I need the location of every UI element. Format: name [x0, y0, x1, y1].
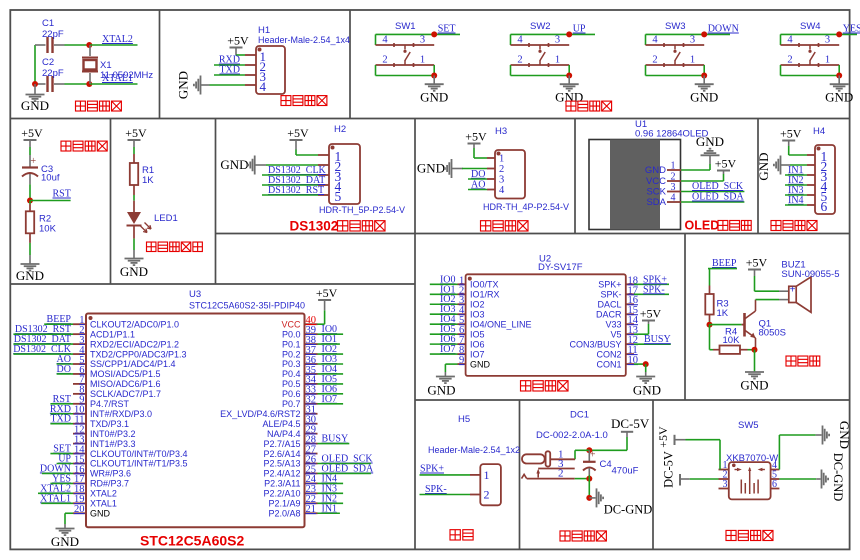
- svg-text:YES: YES: [843, 24, 860, 35]
- svg-text:VCC: VCC: [281, 319, 301, 329]
- svg-text:RD#/P3.7: RD#/P3.7: [90, 479, 129, 489]
- svg-text:TXD2/CPP0/ADC3/P1.3: TXD2/CPP0/ADC3/P1.3: [90, 349, 187, 359]
- svg-text:DC-002-2.0A-1.0: DC-002-2.0A-1.0: [536, 430, 608, 441]
- svg-text:CLKOUT1/INT#/T1/P3.5: CLKOUT1/INT#/T1/P3.5: [90, 459, 188, 469]
- svg-text:GND: GND: [220, 157, 248, 172]
- svg-text:P0.4: P0.4: [282, 369, 301, 379]
- svg-text:GND: GND: [756, 152, 771, 180]
- svg-text:C1: C1: [42, 18, 54, 29]
- svg-text:GND: GND: [120, 264, 148, 279]
- svg-text:+: +: [30, 156, 36, 167]
- svg-text:V5: V5: [610, 329, 621, 339]
- svg-text:H3: H3: [495, 126, 507, 137]
- svg-text:GND: GND: [176, 71, 191, 99]
- svg-text:22pF: 22pF: [42, 29, 64, 40]
- svg-text:4: 4: [517, 34, 523, 45]
- svg-text:Header-Male-2.54_1x2: Header-Male-2.54_1x2: [428, 445, 520, 455]
- svg-text:3: 3: [671, 182, 676, 193]
- svg-text:IO0/TX: IO0/TX: [470, 280, 499, 290]
- svg-text:4: 4: [671, 192, 676, 203]
- svg-text:10K: 10K: [723, 335, 741, 346]
- svg-text:SW5: SW5: [738, 420, 759, 431]
- svg-text:CON2: CON2: [596, 349, 621, 359]
- svg-text:GND: GND: [740, 378, 768, 393]
- svg-text:+5V: +5V: [465, 129, 487, 143]
- svg-text:5: 5: [335, 189, 342, 204]
- svg-text:4: 4: [787, 34, 793, 45]
- svg-text:GND: GND: [16, 268, 44, 283]
- svg-text:HDR-TH_5P-P2.54-V: HDR-TH_5P-P2.54-V: [319, 205, 405, 215]
- svg-text:SW1: SW1: [395, 21, 416, 32]
- svg-text:V33: V33: [605, 319, 621, 329]
- svg-text:DACR: DACR: [596, 309, 622, 319]
- svg-text:+5V: +5V: [21, 126, 43, 140]
- svg-text:IO3: IO3: [470, 309, 485, 319]
- svg-text:2: 2: [517, 54, 522, 65]
- svg-text:8050S: 8050S: [759, 328, 786, 339]
- svg-text:P0.1: P0.1: [282, 339, 301, 349]
- svg-text:DS1302: DS1302: [290, 219, 339, 234]
- svg-text:P0.6: P0.6: [282, 389, 301, 399]
- svg-text:P0.5: P0.5: [282, 379, 301, 389]
- svg-text:H4: H4: [813, 126, 825, 137]
- svg-text:TXD: TXD: [219, 65, 240, 76]
- svg-text:11.0592MHz: 11.0592MHz: [100, 70, 153, 81]
- svg-text:P2.1/A9: P2.1/A9: [268, 499, 300, 509]
- svg-text:GND: GND: [633, 383, 661, 398]
- svg-text:SW3: SW3: [665, 21, 686, 32]
- svg-text:1K: 1K: [717, 308, 729, 319]
- svg-text:1: 1: [555, 54, 560, 65]
- svg-text:GND: GND: [417, 161, 445, 176]
- svg-text:4: 4: [652, 34, 658, 45]
- svg-text:IN4: IN4: [788, 195, 804, 206]
- svg-text:3: 3: [555, 34, 560, 45]
- svg-text:+5V: +5V: [125, 126, 147, 140]
- svg-text:GND: GND: [90, 508, 111, 518]
- svg-text:+: +: [790, 285, 796, 296]
- svg-text:4: 4: [260, 79, 267, 94]
- svg-text:STC12C5A60S2-35I-PDIP40: STC12C5A60S2-35I-PDIP40: [189, 301, 305, 311]
- svg-text:DC-GND: DC-GND: [604, 503, 653, 517]
- svg-text:GND: GND: [696, 134, 724, 149]
- svg-text:P2.7/A15: P2.7/A15: [263, 439, 300, 449]
- svg-text:SUN-09055-5: SUN-09055-5: [781, 269, 839, 280]
- svg-text:XTAL1: XTAL1: [90, 499, 117, 509]
- svg-text:LED1: LED1: [154, 213, 178, 224]
- svg-text:P2.5/A13: P2.5/A13: [263, 459, 300, 469]
- svg-text:SPK+: SPK+: [420, 464, 444, 475]
- svg-text:SPK-: SPK-: [600, 289, 621, 299]
- svg-text:1: 1: [671, 160, 676, 171]
- svg-text:DC-5V: DC-5V: [662, 451, 676, 488]
- svg-text:SCLK/ADC7/P1.7: SCLK/ADC7/P1.7: [90, 389, 161, 399]
- svg-text:XTAL2: XTAL2: [102, 34, 133, 45]
- svg-text:CON1: CON1: [596, 359, 621, 369]
- svg-text:IO2: IO2: [470, 299, 485, 309]
- svg-text:EX_LVD/P4.6/RST2: EX_LVD/P4.6/RST2: [220, 409, 300, 419]
- svg-text:P2.3/A11: P2.3/A11: [264, 479, 300, 489]
- svg-text:P0.0: P0.0: [282, 329, 301, 339]
- svg-text:MOSI/ADC5/P1.5: MOSI/ADC5/P1.5: [90, 369, 161, 379]
- svg-text:10K: 10K: [39, 224, 57, 235]
- svg-text:6: 6: [821, 199, 828, 214]
- svg-text:GND: GND: [825, 90, 853, 105]
- svg-text:2: 2: [652, 54, 657, 65]
- svg-text:ALE/P4.5: ALE/P4.5: [262, 419, 300, 429]
- svg-text:DC1: DC1: [570, 410, 589, 421]
- svg-text:2: 2: [484, 488, 490, 502]
- svg-text:+5V: +5V: [780, 126, 802, 140]
- svg-text:MISO/ADC6/P1.6: MISO/ADC6/P1.6: [90, 379, 161, 389]
- svg-text:1: 1: [420, 54, 425, 65]
- svg-text:OLED_SCK: OLED_SCK: [692, 181, 744, 192]
- svg-text:WR#/P3.6: WR#/P3.6: [90, 469, 131, 479]
- svg-text:H2: H2: [334, 124, 346, 135]
- svg-text:GND: GND: [21, 98, 49, 113]
- svg-text:NA/P4.4: NA/P4.4: [267, 429, 301, 439]
- svg-text:IO1/RX: IO1/RX: [470, 289, 500, 299]
- svg-text:P4.7/RST: P4.7/RST: [90, 399, 130, 409]
- svg-text:INT0#/P3.2: INT0#/P3.2: [90, 429, 136, 439]
- svg-text:CLKOUT2/ADC0/P1.0: CLKOUT2/ADC0/P1.0: [90, 319, 179, 329]
- svg-text:1K: 1K: [142, 175, 154, 186]
- svg-text:3: 3: [723, 479, 728, 490]
- svg-text:DY-SV17F: DY-SV17F: [538, 262, 583, 273]
- svg-text:DACL: DACL: [597, 299, 621, 309]
- svg-text:1: 1: [484, 468, 490, 482]
- svg-text:GND: GND: [645, 165, 666, 176]
- svg-text:P0.7: P0.7: [282, 399, 301, 409]
- svg-text:2: 2: [787, 54, 792, 65]
- svg-text:2: 2: [499, 164, 504, 175]
- svg-text:DC-GND: DC-GND: [831, 453, 845, 502]
- svg-text:VCC: VCC: [646, 176, 666, 187]
- svg-text:3: 3: [690, 34, 695, 45]
- svg-text:21: 21: [306, 504, 317, 515]
- svg-text:GND: GND: [420, 90, 448, 105]
- svg-text:1: 1: [825, 54, 830, 65]
- svg-text:XTAL2: XTAL2: [90, 489, 117, 499]
- svg-text:1: 1: [690, 54, 695, 65]
- svg-text:470uF: 470uF: [612, 466, 639, 477]
- svg-text:GND: GND: [427, 383, 455, 398]
- svg-text:20: 20: [74, 504, 85, 515]
- svg-text:+5V: +5V: [287, 126, 309, 140]
- svg-text:P2.4/A12: P2.4/A12: [263, 469, 300, 479]
- svg-text:SET: SET: [438, 24, 456, 35]
- svg-text:2: 2: [382, 54, 387, 65]
- svg-text:RXD2/ECI/ADC2/P1.2: RXD2/ECI/ADC2/P1.2: [90, 339, 179, 349]
- svg-text:DO: DO: [471, 169, 485, 180]
- svg-text:SW2: SW2: [530, 21, 551, 32]
- svg-text:3: 3: [825, 34, 830, 45]
- svg-text:3: 3: [499, 174, 504, 185]
- svg-text:TXD/P3.1: TXD/P3.1: [90, 419, 129, 429]
- svg-text:1: 1: [499, 153, 504, 164]
- svg-text:+5V: +5V: [316, 286, 338, 300]
- svg-text:P2.0/A8: P2.0/A8: [268, 508, 300, 518]
- svg-text:DOWN: DOWN: [708, 24, 739, 35]
- svg-text:+5V: +5V: [746, 255, 768, 269]
- svg-text:P2.2/A10: P2.2/A10: [263, 489, 300, 499]
- svg-text:IO6: IO6: [470, 339, 485, 349]
- svg-text:GND: GND: [555, 90, 583, 105]
- svg-text:GND: GND: [690, 90, 718, 105]
- svg-text:SDA: SDA: [646, 197, 666, 208]
- svg-text:SPK-: SPK-: [425, 484, 447, 495]
- svg-text:Header-Male-2.54_1x4: Header-Male-2.54_1x4: [258, 35, 350, 45]
- svg-text:IO7: IO7: [470, 349, 485, 359]
- svg-text:SCK: SCK: [646, 187, 666, 198]
- svg-text:BEEP: BEEP: [712, 258, 737, 269]
- svg-text:+5V: +5V: [227, 33, 249, 47]
- svg-text:SS/CPP1/ADC4/P1.4: SS/CPP1/ADC4/P1.4: [90, 359, 176, 369]
- svg-text:C2: C2: [42, 57, 54, 68]
- svg-text:P2.6/A14: P2.6/A14: [263, 449, 300, 459]
- svg-text:6: 6: [772, 479, 777, 490]
- svg-text:4: 4: [499, 185, 505, 196]
- svg-text:RST: RST: [53, 189, 71, 200]
- svg-text:BUSY: BUSY: [644, 334, 671, 345]
- svg-text:+: +: [590, 450, 596, 461]
- svg-text:C4: C4: [600, 459, 612, 470]
- svg-text:GND: GND: [470, 359, 491, 369]
- svg-text:HDR-TH_4P-P2.54-V: HDR-TH_4P-P2.54-V: [483, 202, 569, 212]
- svg-text:SPK+: SPK+: [598, 280, 621, 290]
- svg-text:CON3/BUSY: CON3/BUSY: [569, 339, 621, 349]
- svg-text:P0.3: P0.3: [282, 359, 301, 369]
- svg-text:CLKOUT0/INT#/T0/P3.4: CLKOUT0/INT#/T0/P3.4: [90, 449, 188, 459]
- svg-text:SW4: SW4: [800, 21, 821, 32]
- svg-text:U3: U3: [189, 289, 201, 300]
- svg-text:22pF: 22pF: [42, 68, 64, 79]
- svg-text:+5V: +5V: [640, 306, 662, 320]
- svg-text:4: 4: [382, 34, 388, 45]
- svg-text:STC12C5A60S2: STC12C5A60S2: [140, 533, 244, 549]
- svg-text:GND: GND: [837, 421, 852, 449]
- svg-text:ACD1/P1.1: ACD1/P1.1: [90, 329, 135, 339]
- svg-text:10uf: 10uf: [41, 173, 60, 184]
- svg-text:IO4/ONE_LINE: IO4/ONE_LINE: [470, 319, 532, 329]
- svg-text:UP: UP: [573, 24, 586, 35]
- svg-text:OLED: OLED: [685, 219, 720, 233]
- svg-text:9: 9: [459, 355, 464, 366]
- svg-text:+5V: +5V: [715, 156, 737, 170]
- svg-text:INT#/RXD/P3.0: INT#/RXD/P3.0: [90, 409, 152, 419]
- svg-text:AO: AO: [471, 179, 485, 190]
- svg-text:3: 3: [420, 34, 425, 45]
- svg-text:OLED_SDA: OLED_SDA: [692, 192, 744, 203]
- svg-text:INT1#/P3.3: INT1#/P3.3: [90, 439, 136, 449]
- svg-text:H5: H5: [458, 414, 470, 425]
- svg-text:+5V: +5V: [656, 426, 670, 448]
- svg-text:P0.2: P0.2: [282, 349, 301, 359]
- svg-text:DC-5V: DC-5V: [611, 416, 650, 431]
- svg-text:2: 2: [671, 171, 676, 182]
- svg-text:SPK-: SPK-: [643, 284, 665, 295]
- svg-text:GND: GND: [51, 534, 79, 549]
- svg-text:IO5: IO5: [470, 329, 485, 339]
